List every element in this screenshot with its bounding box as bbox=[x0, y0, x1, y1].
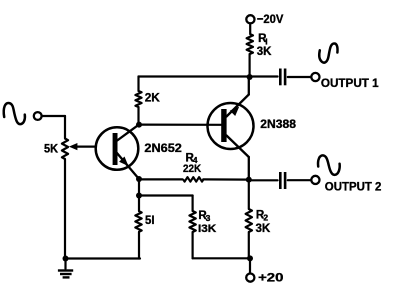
svg-text:3K: 3K bbox=[257, 44, 272, 58]
svg-text:5I: 5I bbox=[145, 213, 155, 227]
svg-text:2N652: 2N652 bbox=[144, 141, 182, 155]
svg-text:OUTPUT 1: OUTPUT 1 bbox=[321, 76, 379, 90]
svg-text:5K: 5K bbox=[44, 141, 58, 155]
svg-text:+20: +20 bbox=[258, 270, 284, 284]
svg-text:2N388: 2N388 bbox=[260, 117, 296, 131]
svg-text:22K: 22K bbox=[183, 163, 201, 175]
svg-text:2K: 2K bbox=[145, 91, 160, 105]
svg-text:3: 3 bbox=[206, 213, 211, 223]
svg-text:OUTPUT 2: OUTPUT 2 bbox=[325, 179, 382, 193]
svg-text:3K: 3K bbox=[256, 221, 271, 235]
svg-text:I3K: I3K bbox=[198, 223, 216, 235]
svg-text:−20V: −20V bbox=[257, 12, 284, 26]
